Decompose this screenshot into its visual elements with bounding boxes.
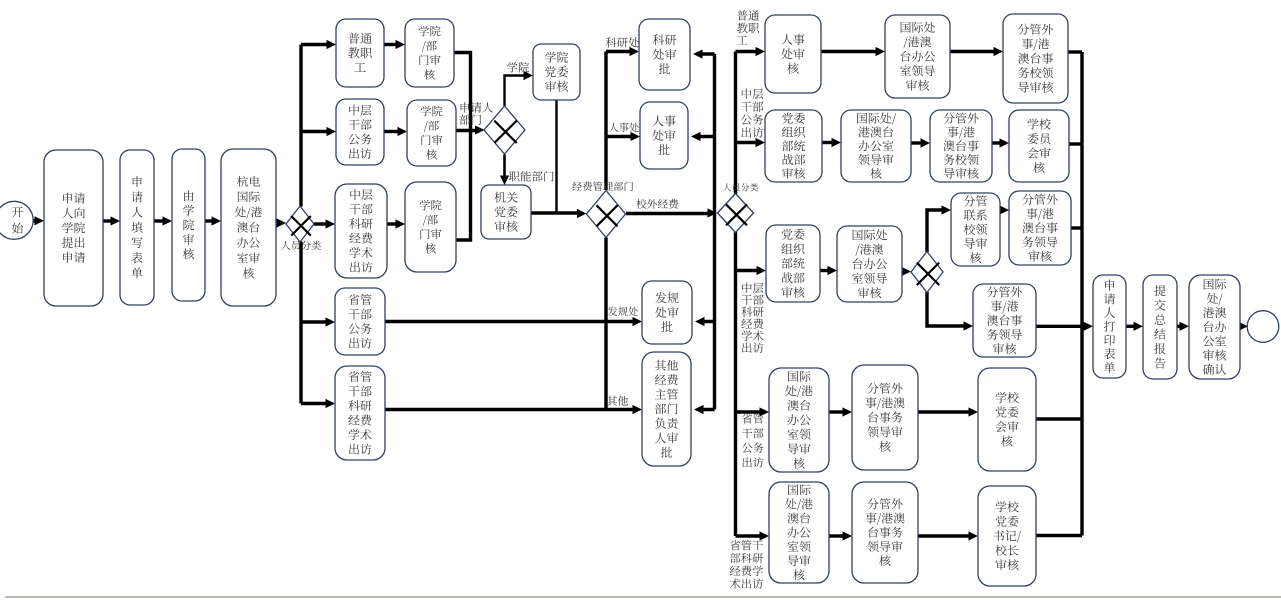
- wire 国际处确认→结束: [1239, 322, 1249, 331]
- process 人事处审核: [765, 15, 821, 93]
- process 提交总结报告: [1143, 275, 1177, 379]
- wire 分管外事4→学校党委会: [918, 407, 978, 416]
- process 分管外事/港澳台事务领导审核 row4: [852, 365, 918, 470]
- process 国际处/港澳台办公室审核确认: [1189, 275, 1240, 379]
- process 申请人打印表单: [1093, 275, 1126, 378]
- wire 人员分类↓分支: [301, 242, 335, 409]
- wire 分管外事1→汇流: [1068, 50, 1082, 53]
- wire 填写表单→学院审核: [154, 216, 172, 225]
- process 党委组织部统战部审核 row3: [766, 225, 820, 302]
- wire 人员分类↑分支: [301, 40, 336, 207]
- process 申请人向学院提出申请: [44, 150, 103, 306]
- wire 党委组织3→国际处3: [820, 266, 837, 275]
- wire 分管外事5→学校党委书记: [918, 531, 978, 540]
- wire 右侧汇流竖线: [1080, 52, 1083, 536]
- wire 国际处4→分管外事4: [829, 407, 852, 416]
- wire 人员分类2↑分支: [736, 47, 766, 194]
- wire 分类菱形↓分管外事3b: [927, 292, 973, 331]
- wire 党委组织2→国际处2: [822, 138, 841, 147]
- gateway 人员分类 #2: [718, 194, 754, 233]
- label 中层干部公务出访: [741, 88, 763, 137]
- label 人员分类 #2: [723, 183, 758, 191]
- process 中层干部科研经费学术出访: [335, 184, 387, 278]
- label 职能部门: [509, 171, 554, 182]
- process 普通教职工: [336, 19, 384, 87]
- wire 省管公务→发规处审批: [385, 317, 642, 326]
- wire start→申请提出: [33, 216, 44, 225]
- wire 学校党委书记→汇流: [1036, 534, 1082, 537]
- label 科研处: [606, 37, 639, 47]
- process 分管外事/港澳台事务领导审核 row3a: [1009, 191, 1071, 265]
- process 分管联系校领导审核: [951, 193, 1000, 266]
- gateway 申请人部门: [484, 106, 525, 154]
- process 分管外事/港澳台事务校领导审核 row1: [1003, 14, 1068, 103]
- label 普通教职工: [737, 10, 759, 44]
- wire 国际处2→分管外事2: [911, 138, 930, 147]
- label 人员分类 #1: [281, 241, 321, 250]
- process 国际处/港澳台办公室领导审核 row1: [885, 15, 950, 98]
- wire 申请人部门↑学院: [505, 71, 534, 106]
- wire 学校党委会→汇流: [1036, 417, 1082, 420]
- start event 开始: [0, 201, 33, 239]
- gateway 分管校领导分类: [911, 252, 943, 293]
- process 科研处审批: [639, 19, 690, 90]
- wire 机关党委→经费管理部门: [531, 209, 587, 218]
- wire 人员分类→中层科研: [314, 219, 335, 228]
- wire 分管外事3b→打印表单: [1036, 322, 1093, 331]
- wire 普通教职工→学院部门审核: [384, 40, 405, 49]
- process 学院/部门审核 row1: [405, 19, 454, 87]
- wire 分管联系→分管外事3a: [1000, 205, 1010, 214]
- wire 经费管理部门↓: [604, 238, 607, 410]
- process 中层干部公务出访: [336, 99, 384, 165]
- process 学院/部门审核 row2: [407, 100, 456, 166]
- wire 国际处3→分类菱形: [902, 267, 912, 276]
- wire 分管外事3a→汇流: [1071, 226, 1082, 229]
- label 经费管理部门: [572, 182, 633, 192]
- wire 分管外事2→学校委员会: [992, 138, 1009, 147]
- process 党委组织部统战部审核 row2: [765, 110, 822, 182]
- wire 回流竖线: [691, 49, 715, 414]
- wire 中层公务→学院部门审核: [384, 127, 407, 136]
- wire 分类菱形↑分管联系: [927, 205, 951, 252]
- label 其他: [607, 396, 628, 406]
- process 分管外事/港澳台事务领导审核 row5: [852, 482, 918, 583]
- process 杭电国际处/港澳台办公室审核: [221, 149, 276, 306]
- process 分管外事/港澳台事务校领导审核 row2: [930, 110, 992, 182]
- process 学院/部门审核 row3: [405, 182, 456, 272]
- wire 提出→填写表单: [103, 216, 120, 225]
- wire 经费管理部门→校外经费: [626, 208, 717, 217]
- wire 学院审核→杭电国际处: [205, 216, 221, 225]
- wire 打印表单→提交总结: [1126, 322, 1143, 331]
- process 学校委员会审核: [1009, 110, 1069, 182]
- process 分管外事/港澳台事务领导审核 row3b: [973, 284, 1036, 357]
- wire 省管科研→其他审批: [385, 405, 642, 414]
- wire 汇合→申请人部门: [456, 125, 485, 134]
- process 省管干部公务出访: [335, 288, 385, 355]
- gateway 人员分类 #1: [286, 206, 314, 242]
- wire 国际处1→分管外事1: [950, 47, 1003, 56]
- wire 学院党委↓: [555, 100, 557, 213]
- wire 提交总结→国际处确认: [1177, 322, 1189, 331]
- process 国际处/港澳台办公室领导审核 row2: [841, 110, 911, 182]
- process 由学院审核: [172, 149, 205, 301]
- process 国际处/港澳台办公室领导审核 row4: [769, 368, 829, 472]
- process 人事处审批: [640, 102, 688, 169]
- wire 申请人部门↓职能部门: [500, 155, 509, 186]
- wire 学院部门审核1→汇合: [454, 53, 471, 132]
- process 申请人填写表单: [120, 150, 154, 305]
- label 申请人部门: [460, 102, 494, 125]
- wire 学校委员会→汇流: [1069, 142, 1082, 145]
- wire 学院部门审核3→汇合: [456, 131, 471, 240]
- label 人事处: [609, 123, 639, 132]
- process 学校党委书记/校长审核: [978, 486, 1036, 586]
- end event: [1247, 311, 1279, 343]
- label 省管干部公务出访: [742, 413, 764, 467]
- wire 国际处5→分管外事5: [829, 531, 852, 540]
- process 国际处/港澳台办公室领导审核 row3: [837, 226, 902, 302]
- process 发规处审批: [642, 281, 692, 344]
- wire 经费管理部门↑科研人事: [606, 47, 640, 190]
- wire 人事处审核→国际处1: [821, 47, 885, 56]
- label 发规处: [608, 306, 638, 316]
- process 学校党委会审核: [978, 368, 1036, 471]
- label 学院: [507, 62, 529, 73]
- process 机关党委审核: [481, 185, 531, 239]
- process 学院党委审核: [533, 44, 580, 100]
- page bottom border line: [5, 596, 1281, 598]
- process 其他经费主管部门负责人审批: [642, 352, 691, 466]
- process 国际处/港澳台办公室领导审核 row5: [769, 482, 829, 583]
- wire 中层科研→学院部门审核: [387, 219, 405, 228]
- label 中层干部科研经费学术出访: [741, 282, 763, 353]
- wire 杭电国际处→人员分类: [276, 218, 286, 227]
- label 省管干部科研经费学术出访: [730, 540, 763, 589]
- wire 人员分类2↓分支: [736, 232, 770, 541]
- label 校外经费: [636, 199, 678, 209]
- process 省管干部科研经费学术出访: [335, 366, 385, 460]
- gateway 经费管理部门: [587, 191, 626, 238]
